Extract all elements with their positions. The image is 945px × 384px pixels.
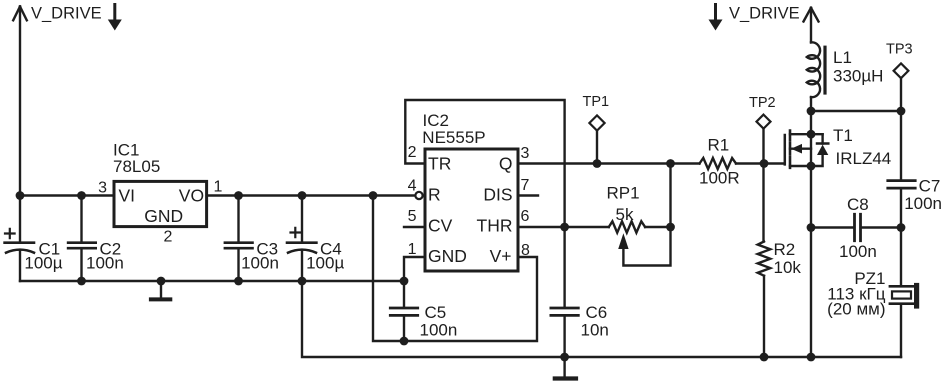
- svg-text:GND: GND: [144, 206, 183, 226]
- svg-text:100µ: 100µ: [24, 254, 62, 273]
- svg-text:VO: VO: [179, 185, 204, 205]
- svg-text:TP1: TP1: [583, 94, 610, 110]
- svg-text:R1: R1: [708, 136, 730, 155]
- svg-text:V_DRIVE: V_DRIVE: [31, 5, 102, 23]
- svg-text:8: 8: [521, 242, 530, 259]
- svg-text:3: 3: [98, 180, 107, 197]
- svg-text:VI: VI: [119, 185, 136, 205]
- svg-text:TP2: TP2: [749, 95, 776, 111]
- svg-text:V+: V+: [490, 246, 512, 266]
- svg-text:100n: 100n: [420, 321, 458, 340]
- svg-text:4: 4: [408, 178, 417, 195]
- svg-text:100n: 100n: [839, 242, 877, 261]
- svg-text:IRLZ44: IRLZ44: [836, 149, 892, 168]
- svg-text:100R: 100R: [699, 169, 740, 188]
- svg-text:THR: THR: [477, 216, 513, 236]
- svg-text:V_DRIVE: V_DRIVE: [729, 5, 800, 23]
- svg-text:T1: T1: [833, 126, 853, 145]
- svg-text:100µ: 100µ: [306, 254, 344, 273]
- svg-text:10k: 10k: [774, 258, 802, 277]
- svg-text:7: 7: [521, 177, 530, 194]
- svg-text:100n: 100n: [86, 254, 124, 273]
- svg-text:5k: 5k: [616, 205, 634, 224]
- svg-text:RP1: RP1: [607, 184, 640, 203]
- svg-text:GND: GND: [428, 246, 467, 266]
- svg-text:2: 2: [408, 144, 417, 161]
- svg-text:L1: L1: [833, 48, 852, 67]
- svg-text:TP3: TP3: [886, 42, 913, 58]
- svg-text:330µH: 330µH: [833, 67, 883, 86]
- svg-text:3: 3: [521, 145, 530, 162]
- svg-text:1: 1: [408, 241, 417, 258]
- svg-text:100n: 100n: [241, 254, 279, 273]
- svg-text:C8: C8: [847, 195, 869, 214]
- svg-text:C5: C5: [425, 303, 447, 322]
- svg-text:CV: CV: [428, 216, 453, 236]
- svg-text:C6: C6: [586, 303, 608, 322]
- svg-text:DIS: DIS: [483, 185, 512, 205]
- svg-text:10n: 10n: [581, 321, 609, 340]
- svg-text:78L05: 78L05: [113, 157, 160, 176]
- svg-text:6: 6: [521, 208, 530, 225]
- svg-text:(20 мм): (20 мм): [827, 300, 885, 319]
- svg-text:NE555P: NE555P: [422, 128, 485, 147]
- svg-text:100n: 100n: [904, 194, 942, 213]
- svg-text:C7: C7: [919, 177, 941, 196]
- svg-text:2: 2: [164, 228, 173, 245]
- svg-text:1: 1: [214, 179, 223, 196]
- svg-text:R2: R2: [774, 240, 796, 259]
- svg-text:5: 5: [408, 208, 417, 225]
- svg-text:Q: Q: [499, 154, 513, 174]
- svg-text:R: R: [428, 185, 441, 205]
- svg-text:TR: TR: [428, 154, 451, 174]
